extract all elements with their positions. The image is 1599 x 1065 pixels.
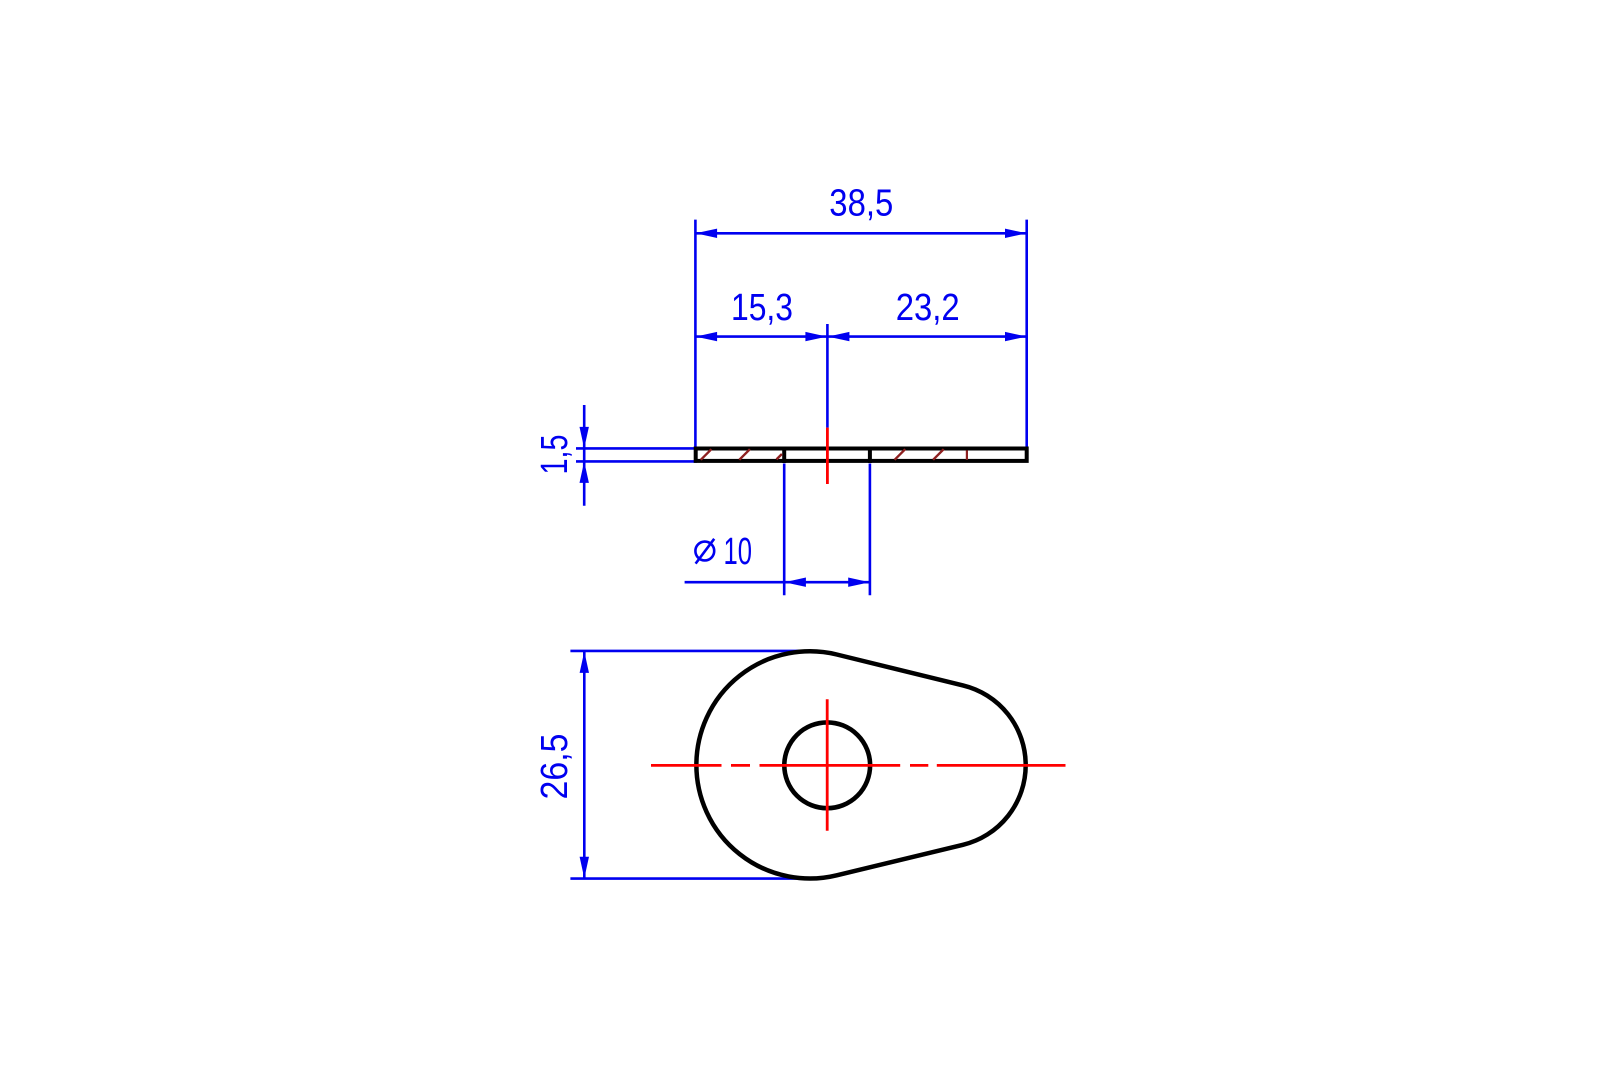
arrow 38,5 left	[696, 229, 718, 238]
teardrop outline	[696, 651, 1025, 878]
extension line 1,5 bottom	[576, 460, 697, 463]
arrow 15,3 right	[805, 332, 827, 341]
hatch line 3 (clipped)	[777, 454, 782, 459]
arrow 23,2 left	[828, 332, 850, 341]
hatch line 5	[933, 449, 944, 460]
arrow 26,5 top (points up)	[580, 651, 589, 673]
hole right edge (section)	[868, 447, 872, 464]
diameter symbol slash	[696, 539, 715, 564]
dimension line diameter 10	[685, 581, 870, 584]
svg-text:23,2: 23,2	[896, 287, 960, 329]
arrow 1,5 bottom (points up)	[580, 461, 589, 483]
extension line center (hole axis, blue part)	[826, 324, 829, 428]
arrow d10 left (points left, outside-in body)	[784, 578, 806, 587]
dimension line 38,5	[695, 232, 1026, 235]
dimension line 26,5	[583, 651, 586, 878]
centerline hole axis (section, red)	[826, 428, 829, 484]
svg-text:1,5: 1,5	[534, 435, 576, 475]
hole circle	[784, 722, 870, 808]
extension line right (38.5 / 23.2)	[1025, 220, 1028, 447]
arrow 26,5 bottom (points down)	[580, 857, 589, 879]
hatch line 4	[895, 449, 906, 460]
svg-text:15,3: 15,3	[731, 287, 793, 329]
arrow 38,5 right	[1005, 229, 1027, 238]
extension line hole left (diameter 10)	[783, 464, 786, 596]
extension line hole right (diameter 10)	[869, 464, 872, 596]
arrow 23,2 right	[1005, 332, 1027, 341]
dimension line 1,5 (vertical)	[583, 405, 586, 506]
centerline vertical (plan, red)	[826, 699, 829, 831]
dimension line 15,3 / 23,2	[695, 335, 1026, 338]
arrow 15,3 left	[696, 332, 718, 341]
svg-text:26,5: 26,5	[534, 734, 576, 800]
svg-text:38,5: 38,5	[829, 183, 893, 225]
arrow d10 right (points right)	[848, 578, 870, 587]
hatch mark 6 (vertical remnant)	[966, 450, 968, 460]
arrow 1,5 top (points down)	[580, 427, 589, 449]
diameter symbol circle	[695, 542, 714, 561]
plate outline (section)	[696, 449, 1027, 461]
centerline horizontal (plan, red dashed)	[651, 764, 1066, 767]
extension line 26,5 top	[570, 650, 811, 653]
extension line 1,5 top	[576, 447, 697, 450]
hatch line 1	[701, 449, 712, 460]
hole left edge (section)	[782, 447, 786, 464]
extension line 26,5 bottom	[570, 877, 811, 880]
hatch line 2	[739, 449, 750, 460]
extension line left (38.5 / 15.3)	[694, 220, 697, 447]
svg-text:10: 10	[724, 531, 753, 573]
